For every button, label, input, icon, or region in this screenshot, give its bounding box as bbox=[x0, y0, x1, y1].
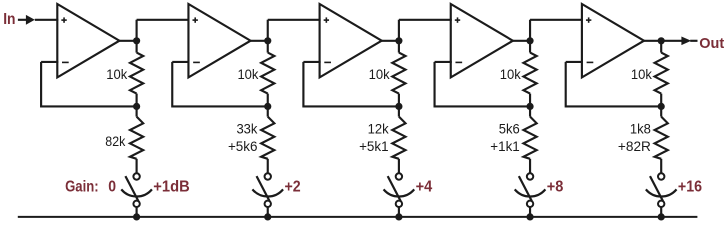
node bus junction stage 1 bbox=[133, 213, 140, 220]
node feedback junction stage 2 bbox=[264, 103, 271, 110]
svg-text:Gain:: Gain: bbox=[65, 178, 99, 195]
resistor 10k stage 2 bbox=[261, 41, 274, 107]
wire + input stage 5 bbox=[530, 19, 583, 21]
label 1k8 +82R stage 5 bbox=[618, 121, 651, 154]
svg-text:82k: 82k bbox=[105, 133, 126, 149]
label gain +16 stage 5 bbox=[678, 178, 702, 195]
label Gain: bbox=[65, 178, 99, 195]
wire switch to bus stage 4 bbox=[529, 207, 531, 217]
label 10k stage 5 bbox=[631, 66, 653, 82]
switch stage 5 bbox=[646, 173, 677, 207]
resistor 5k6 +1k1 stage 4 bbox=[523, 106, 536, 173]
op-amp stage 4 bbox=[451, 4, 513, 77]
op-amp stage 2 bbox=[188, 4, 250, 77]
wire feedback stage 4 bbox=[435, 62, 531, 108]
svg-text:10k: 10k bbox=[237, 66, 259, 82]
svg-text:0: 0 bbox=[108, 178, 116, 195]
svg-text:1k8: 1k8 bbox=[630, 121, 651, 137]
node bus junction stage 4 bbox=[526, 213, 533, 220]
svg-text:Out: Out bbox=[699, 35, 724, 52]
wire switch to bus stage 5 bbox=[660, 207, 662, 217]
wire In to arrow bbox=[18, 19, 27, 21]
node output junction stage 5 bbox=[658, 37, 665, 44]
label 10k stage 3 bbox=[369, 66, 391, 82]
resistor 82k stage 1 bbox=[130, 106, 143, 173]
wire switch to bus stage 1 bbox=[136, 207, 138, 217]
resistor 33k +5k6 stage 2 bbox=[261, 106, 274, 173]
wire ground bus bbox=[18, 216, 698, 218]
switch stage 3 bbox=[384, 173, 415, 207]
resistor 10k stage 1 bbox=[130, 41, 143, 107]
node output junction stage 1 bbox=[133, 37, 140, 44]
svg-text:10k: 10k bbox=[500, 66, 522, 82]
svg-text:5k6: 5k6 bbox=[499, 121, 520, 137]
wire riser from previous output node stage 3 bbox=[267, 20, 269, 41]
label 33k +5k6 stage 2 bbox=[228, 121, 258, 154]
node bus junction stage 5 bbox=[658, 213, 665, 220]
wire feedback stage 3 bbox=[303, 62, 399, 108]
wire output stage 1 bbox=[119, 40, 136, 42]
svg-text:+5k1: +5k1 bbox=[359, 138, 389, 154]
op-amp stage 5 bbox=[582, 4, 644, 77]
input arrowhead bbox=[26, 15, 35, 25]
wire output stage 4 bbox=[513, 40, 530, 42]
svg-text:+16: +16 bbox=[678, 178, 702, 195]
wire feedback stage 1 bbox=[41, 62, 137, 108]
switch stage 4 bbox=[515, 173, 546, 207]
resistor 10k stage 3 bbox=[392, 41, 405, 107]
switch stage 1 bbox=[121, 173, 152, 207]
svg-text:10k: 10k bbox=[631, 66, 653, 82]
node feedback junction stage 1 bbox=[133, 103, 140, 110]
switch stage 2 bbox=[252, 173, 283, 207]
label 0 (switch open position) bbox=[108, 178, 116, 195]
label 10k stage 2 bbox=[237, 66, 259, 82]
node feedback junction stage 3 bbox=[395, 103, 402, 110]
wire switch to bus stage 3 bbox=[398, 207, 400, 217]
node output junction stage 4 bbox=[526, 37, 533, 44]
resistor 1k8 +82R stage 5 bbox=[655, 106, 668, 173]
label gain +2 stage 2 bbox=[284, 178, 300, 195]
svg-text:10k: 10k bbox=[106, 66, 128, 82]
label 10k stage 1 bbox=[106, 66, 128, 82]
wire output to Out arrow bbox=[661, 40, 682, 42]
svg-text:+4: +4 bbox=[416, 178, 433, 195]
wire + input stage 1 bbox=[35, 19, 59, 21]
node output junction stage 2 bbox=[264, 37, 271, 44]
wire feedback stage 5 bbox=[566, 62, 662, 108]
resistor 12k +5k1 stage 3 bbox=[392, 106, 405, 173]
output arrowhead bbox=[681, 37, 697, 46]
wire riser from previous output node stage 4 bbox=[398, 20, 400, 41]
node feedback junction stage 4 bbox=[526, 103, 533, 110]
node feedback junction stage 5 bbox=[658, 103, 665, 110]
label gain +8 stage 4 bbox=[547, 178, 564, 195]
label 82k stage 1 bbox=[105, 133, 126, 149]
label 5k6 +1k1 stage 4 bbox=[490, 121, 520, 154]
resistor 10k stage 4 bbox=[523, 41, 536, 107]
resistor 10k stage 5 bbox=[655, 41, 668, 107]
wire riser from previous output node stage 5 bbox=[529, 20, 531, 41]
node bus junction stage 2 bbox=[264, 213, 271, 220]
label 12k +5k1 stage 3 bbox=[359, 121, 389, 154]
node In label bbox=[3, 11, 15, 28]
op-amp stage 3 bbox=[320, 4, 382, 77]
label 10k stage 4 bbox=[500, 66, 522, 82]
svg-text:+1k1: +1k1 bbox=[490, 138, 520, 154]
svg-text:12k: 12k bbox=[368, 121, 390, 137]
wire + input stage 3 bbox=[268, 19, 321, 21]
svg-text:+1dB: +1dB bbox=[153, 178, 189, 195]
wire + input stage 4 bbox=[399, 19, 452, 21]
wire feedback stage 2 bbox=[172, 62, 268, 108]
wire riser from previous output node stage 2 bbox=[136, 20, 138, 41]
svg-text:+82R: +82R bbox=[618, 138, 651, 154]
svg-text:+5k6: +5k6 bbox=[228, 138, 258, 154]
wire switch to bus stage 2 bbox=[267, 207, 269, 217]
wire + input stage 2 bbox=[137, 19, 190, 21]
wire output stage 3 bbox=[382, 40, 399, 42]
label gain +1dB stage 1 bbox=[153, 178, 189, 195]
op-amp stage 1 bbox=[57, 4, 119, 77]
wire output stage 5 bbox=[644, 40, 661, 42]
wire output stage 2 bbox=[251, 40, 268, 42]
svg-text:33k: 33k bbox=[236, 121, 258, 137]
node Out label bbox=[699, 35, 724, 52]
node bus junction stage 3 bbox=[395, 213, 402, 220]
node output junction stage 3 bbox=[395, 37, 402, 44]
svg-text:+8: +8 bbox=[547, 178, 564, 195]
label gain +4 stage 3 bbox=[416, 178, 433, 195]
svg-text:In: In bbox=[3, 11, 15, 28]
svg-text:+2: +2 bbox=[284, 178, 300, 195]
svg-text:10k: 10k bbox=[369, 66, 391, 82]
